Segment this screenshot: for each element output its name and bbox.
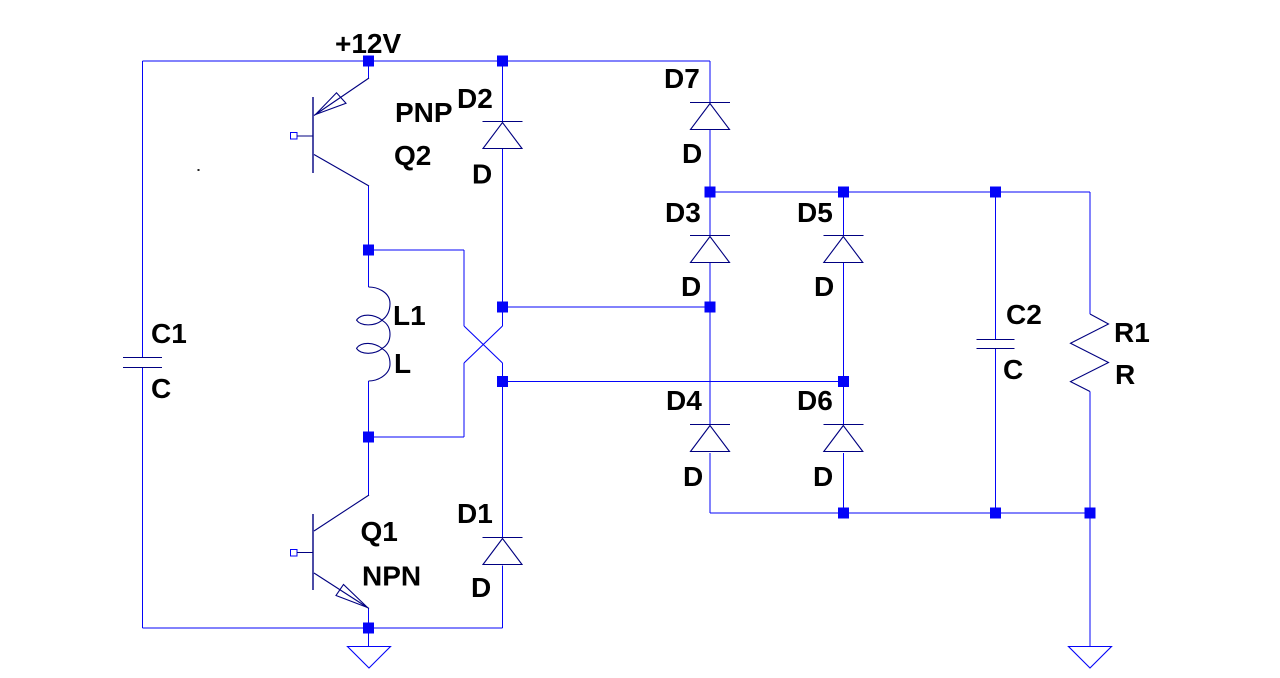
svg-text:D: D xyxy=(814,271,834,302)
svg-text:D: D xyxy=(683,461,703,492)
svg-text:L1: L1 xyxy=(393,300,426,331)
svg-text:PNP: PNP xyxy=(395,97,453,128)
svg-text:D: D xyxy=(471,572,491,603)
svg-text:R1: R1 xyxy=(1114,317,1150,348)
svg-text:C1: C1 xyxy=(151,318,187,349)
svg-text:D7: D7 xyxy=(664,63,700,94)
svg-text:+12V: +12V xyxy=(335,28,401,59)
svg-text:D1: D1 xyxy=(457,498,493,529)
svg-text:C: C xyxy=(1003,354,1023,385)
svg-text:Q1: Q1 xyxy=(361,516,398,547)
svg-text:Q2: Q2 xyxy=(394,140,431,171)
svg-text:C2: C2 xyxy=(1006,299,1042,330)
svg-text:D6: D6 xyxy=(797,385,833,416)
svg-text:NPN: NPN xyxy=(362,561,421,592)
svg-text:D: D xyxy=(813,461,833,492)
svg-text:D: D xyxy=(472,159,492,190)
svg-text:R: R xyxy=(1115,359,1135,390)
svg-text:D2: D2 xyxy=(457,83,493,114)
svg-text:D: D xyxy=(681,271,701,302)
svg-text:D3: D3 xyxy=(665,197,701,228)
svg-text:C: C xyxy=(151,373,171,404)
svg-text:L: L xyxy=(394,348,411,379)
svg-text:D5: D5 xyxy=(797,197,833,228)
svg-text:D: D xyxy=(682,138,702,169)
svg-text:D4: D4 xyxy=(666,385,702,416)
